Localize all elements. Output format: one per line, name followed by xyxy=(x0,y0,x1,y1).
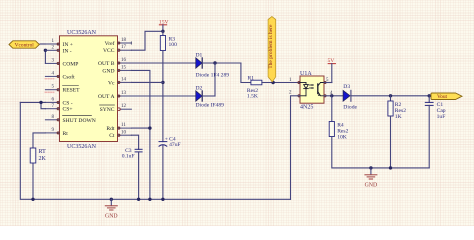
svg-text:D2: D2 xyxy=(196,85,203,91)
wire: pin15 GND down rail xyxy=(132,70,150,199)
pin 10 Ct xyxy=(109,130,131,139)
capacitor C1 xyxy=(425,96,446,168)
pin 18 Vref (n/c) xyxy=(105,38,132,47)
svg-text:UC3526AN: UC3526AN xyxy=(67,30,97,36)
node: C1 top junction xyxy=(428,94,431,97)
svg-text:+: + xyxy=(165,136,168,142)
pin 14 Vc xyxy=(108,77,132,86)
svg-text:SHUT DOWN: SHUT DOWN xyxy=(63,118,96,124)
svg-text:6: 6 xyxy=(52,97,55,102)
svg-text:Vout: Vout xyxy=(437,94,448,100)
node: C4 rail junction xyxy=(161,198,164,201)
pin 4 Csoft (n/c) xyxy=(45,71,75,80)
power 15V xyxy=(159,19,169,31)
svg-text:13: 13 xyxy=(121,91,127,96)
power 5V xyxy=(328,58,336,82)
wire: R4 pulldown xyxy=(331,96,333,122)
pin 15 GND xyxy=(102,65,131,74)
resistor R2 xyxy=(388,101,393,116)
pin 16 OUT B xyxy=(98,58,132,67)
svg-text:CS -: CS - xyxy=(63,100,73,106)
svg-text:3: 3 xyxy=(52,58,55,63)
svg-text:GND: GND xyxy=(102,68,114,74)
diode D1 xyxy=(196,52,230,78)
node: GND2 junction xyxy=(369,166,372,169)
optocoupler U1A xyxy=(289,71,333,111)
pin 8 SHUT DOWN xyxy=(45,115,95,124)
svg-text:11: 11 xyxy=(121,123,126,128)
svg-text:14: 14 xyxy=(121,77,127,82)
svg-text:D1: D1 xyxy=(196,52,203,58)
wire: pin14 Vc to rail xyxy=(132,81,163,83)
svg-text:Vcontrol: Vcontrol xyxy=(15,43,35,49)
node: IN- junction xyxy=(44,49,47,52)
diode D2 xyxy=(196,85,225,108)
wire: R3 rail down to C4 xyxy=(162,51,164,142)
node: CS junction xyxy=(39,101,42,104)
wire: Vcontrol to pin1 xyxy=(40,43,45,45)
svg-text:2K: 2K xyxy=(39,156,47,162)
node: flag junction xyxy=(271,81,274,84)
pin 7 CS+ xyxy=(45,104,72,113)
svg-text:OUT A: OUT A xyxy=(98,94,115,100)
wire: pin11 Rdt to rail xyxy=(132,127,150,129)
wire: IN- to COMP feedback xyxy=(44,50,46,63)
resistor R1 xyxy=(251,80,262,85)
wire: tie vertical D1-D2 xyxy=(214,63,216,96)
pin 6 CS- xyxy=(45,97,72,106)
svg-text:12: 12 xyxy=(121,104,127,109)
svg-text:1K: 1K xyxy=(395,114,402,120)
svg-text:Diode IF489: Diode IF489 xyxy=(196,102,225,108)
svg-text:100: 100 xyxy=(169,42,178,48)
svg-text:D3: D3 xyxy=(343,84,350,90)
pin 2 IN- xyxy=(45,45,71,54)
svg-text:Ct: Ct xyxy=(109,133,115,139)
resistor R3 xyxy=(160,36,165,51)
svg-text:10: 10 xyxy=(121,130,127,135)
wire: CS+ branch xyxy=(41,102,45,108)
node: RT rail junction xyxy=(31,198,34,201)
wire: RT bottom to rail xyxy=(32,163,34,199)
node: Vc junction xyxy=(161,81,164,84)
wire: R2 leads xyxy=(390,96,392,101)
wire: 15V to R3 xyxy=(162,31,164,35)
svg-text:7: 7 xyxy=(52,104,55,109)
node: Rdt junction xyxy=(148,126,151,129)
capacitor C3 xyxy=(122,148,142,160)
svg-text:8: 8 xyxy=(52,115,55,120)
pin 11 Rdt xyxy=(106,123,131,132)
svg-text:U1A: U1A xyxy=(300,71,312,77)
LED inside xyxy=(300,82,306,84)
node: R2 gnd junction xyxy=(389,166,392,169)
svg-text:1: 1 xyxy=(52,39,55,44)
ground GND (left) xyxy=(105,199,118,219)
resistor RT xyxy=(30,148,36,163)
svg-text:IN -: IN - xyxy=(63,48,72,54)
svg-text:Diode: Diode xyxy=(343,104,357,110)
node: emitter junction xyxy=(330,94,333,97)
wire: D2 out to tie xyxy=(202,95,215,97)
svg-text:0.1uF: 0.1uF xyxy=(122,154,135,160)
node: 15V junction xyxy=(161,30,164,33)
wire: opto pin4 to D3 xyxy=(324,95,343,97)
arrows xyxy=(310,84,314,86)
svg-text:17: 17 xyxy=(121,45,127,50)
wire: opto pin2 down to rail xyxy=(291,96,301,200)
svg-text:SYNC: SYNC xyxy=(100,107,115,113)
svg-text:9: 9 xyxy=(52,128,55,133)
wire: C4 to rail xyxy=(162,145,164,199)
ground GND (right) xyxy=(365,168,378,189)
svg-text:2: 2 xyxy=(289,91,292,96)
svg-text:15: 15 xyxy=(121,65,127,70)
wire: D3 out to Vout xyxy=(351,95,431,97)
wire: VCC pin17 to 15V rail xyxy=(132,31,163,50)
node: pin15 rail junction xyxy=(148,198,151,201)
wire: OUT B to D1 xyxy=(132,62,196,64)
pin 5 RESET (n/c) xyxy=(45,85,80,94)
svg-text:Csoft: Csoft xyxy=(63,73,76,80)
pin 9 Rt xyxy=(45,128,68,137)
wire: C3 to rail xyxy=(138,152,140,199)
svg-text:Vref: Vref xyxy=(105,40,115,47)
resistor R4 xyxy=(329,122,334,137)
port Vout xyxy=(431,93,462,100)
svg-text:Diode 1F4 289: Diode 1F4 289 xyxy=(196,72,230,78)
wire: to R1 xyxy=(241,63,251,83)
svg-text:Vc: Vc xyxy=(108,80,115,86)
node: diode tie xyxy=(213,61,216,64)
wire: pin10 Ct to C3 xyxy=(132,135,139,149)
svg-text:COMP: COMP xyxy=(63,61,79,67)
svg-text:47uF: 47uF xyxy=(169,142,181,148)
phototransistor xyxy=(317,84,319,94)
svg-text:1uF: 1uF xyxy=(437,114,446,120)
svg-text:Rt: Rt xyxy=(63,131,69,137)
svg-text:RT: RT xyxy=(39,149,47,155)
wire: OUT A to D2 xyxy=(132,95,196,97)
wire: pin9 Rt to RT resistor xyxy=(33,133,45,148)
wire: CS- pin6 horizontal xyxy=(20,101,45,103)
svg-text:The problem is here: The problem is here xyxy=(268,24,274,69)
svg-text:4N25: 4N25 xyxy=(300,104,313,110)
capacitor C4 xyxy=(159,136,181,148)
svg-text:16: 16 xyxy=(121,58,127,63)
svg-text:IN +: IN + xyxy=(63,42,73,48)
pin 13 OUT A xyxy=(98,91,132,100)
svg-text:10K: 10K xyxy=(337,134,347,140)
wire: opto pin5 stub xyxy=(324,82,332,84)
svg-text:Rdt: Rdt xyxy=(106,126,115,132)
wire: D1 out xyxy=(202,62,241,64)
svg-text:R1: R1 xyxy=(248,76,255,82)
svg-text:OUT B: OUT B xyxy=(98,61,115,67)
wire: R4 bottom to gnd rail xyxy=(332,137,429,168)
diode D3 xyxy=(343,84,357,111)
flag: The problem is here xyxy=(268,17,276,82)
pin 1 IN+ xyxy=(45,39,73,48)
node: R2 top junction xyxy=(389,94,392,97)
svg-text:GND: GND xyxy=(105,214,118,220)
svg-text:2: 2 xyxy=(52,45,55,50)
pin 12 SYNC xyxy=(100,104,132,113)
svg-text:CS+: CS+ xyxy=(63,107,73,113)
pin 3 COMP xyxy=(45,58,78,67)
svg-text:18: 18 xyxy=(121,38,127,43)
node: GND1 rail junction xyxy=(110,198,113,201)
svg-text:RESET: RESET xyxy=(63,88,81,94)
node: C3 rail junction xyxy=(137,198,140,201)
svg-text:1.5K: 1.5K xyxy=(247,94,258,100)
wire: R1 to opto pin1 xyxy=(262,82,300,84)
svg-text:5: 5 xyxy=(52,85,55,90)
svg-text:VCC: VCC xyxy=(103,48,115,54)
svg-text:UC3526AN: UC3526AN xyxy=(67,144,97,150)
IC U? UC3526AN body xyxy=(60,36,118,142)
port Vcontrol xyxy=(9,41,39,48)
svg-text:4: 4 xyxy=(52,71,55,76)
wire: bottom common rail xyxy=(20,102,290,199)
pin 17 VCC xyxy=(103,45,132,54)
svg-text:GND: GND xyxy=(365,183,378,189)
